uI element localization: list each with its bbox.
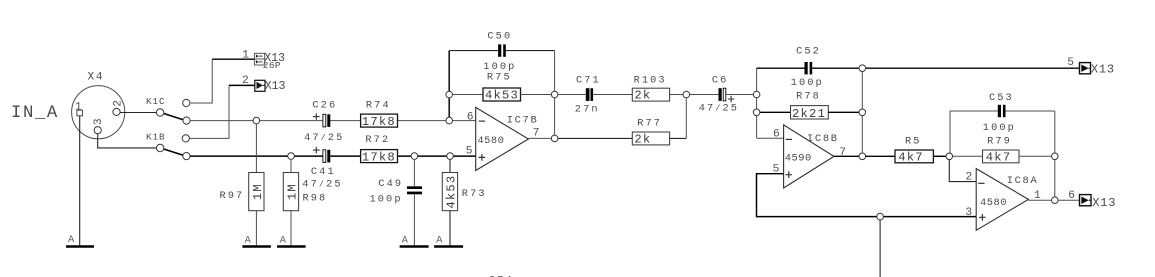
ground R97: [242, 245, 271, 248]
svg-text:R77: R77: [637, 118, 662, 130]
svg-text:K1C: K1C: [146, 96, 165, 107]
wire K1C top throw to X13 pin1: [190, 59, 212, 103]
svg-text:C71: C71: [576, 74, 601, 86]
resistor R79: [953, 136, 1052, 165]
svg-text:47/25: 47/25: [699, 103, 739, 115]
svg-text:K1B: K1B: [146, 132, 165, 143]
svg-text:X13: X13: [1092, 196, 1116, 210]
svg-text:R103: R103: [634, 74, 667, 86]
wire IC8B pin5 / bottom net: [757, 174, 977, 217]
capacitor C52: [757, 46, 860, 89]
svg-text:2: 2: [112, 100, 124, 107]
svg-text:C52: C52: [796, 46, 821, 58]
svg-text:47/25: 47/25: [302, 179, 342, 191]
wire C52 row to X13 pin5: [866, 67, 1079, 69]
wire junction to IC8A pin2: [949, 160, 976, 182]
resistor R72: [361, 134, 398, 164]
capacitor C53: [950, 92, 1055, 134]
svg-text:47/25: 47/25: [304, 132, 344, 144]
ground: [66, 245, 94, 248]
svg-text:R72: R72: [365, 134, 390, 146]
wire X4 pin3 to K1B common: [98, 134, 157, 148]
svg-text:R97: R97: [220, 190, 245, 202]
resistor R5: [895, 136, 946, 165]
svg-text:3: 3: [965, 207, 972, 219]
svg-text:6: 6: [1068, 190, 1075, 202]
svg-text:7: 7: [839, 147, 846, 159]
junction row2/R73: [447, 153, 454, 160]
junction row2/R98: [288, 153, 295, 160]
svg-text:100p: 100p: [370, 194, 403, 206]
capacitor C50: [449, 31, 554, 74]
svg-text:R74: R74: [366, 100, 391, 112]
junction R5/R79/pin2: [946, 153, 953, 160]
wire K1B top throw to X13 pin2: [189, 85, 229, 138]
wire X4 pin2 to K1C common: [120, 112, 156, 114]
svg-text:17k8: 17k8: [362, 150, 396, 164]
svg-text:1M: 1M: [251, 183, 265, 200]
resistor R98: [283, 159, 327, 245]
wire IC7B output: [528, 137, 551, 139]
resistor R73: [442, 159, 486, 245]
svg-text:A: A: [245, 234, 252, 246]
svg-text:2k: 2k: [634, 133, 651, 147]
svg-text:4580: 4580: [980, 197, 1007, 209]
op-amp IC8B: [773, 125, 846, 188]
svg-text:5: 5: [466, 145, 473, 157]
svg-text:7: 7: [533, 128, 540, 140]
feedback column right of IC8B (x862): [861, 68, 863, 156]
svg-text:100p: 100p: [791, 77, 824, 89]
svg-text:5: 5: [1067, 57, 1074, 69]
svg-text:A: A: [280, 235, 287, 247]
connector X13 pin 5: [1067, 57, 1115, 77]
connector X13 pin 1 / 26P: [242, 50, 285, 71]
svg-text:A: A: [402, 234, 409, 246]
svg-text:R98: R98: [303, 193, 328, 205]
svg-text:4k53: 4k53: [444, 175, 458, 209]
svg-text:X4: X4: [88, 71, 105, 83]
svg-text:1: 1: [242, 50, 249, 62]
svg-text:R78: R78: [796, 91, 821, 103]
svg-text:IN_A: IN_A: [11, 104, 59, 123]
svg-text:X13: X13: [1091, 63, 1115, 77]
svg-text:6: 6: [467, 112, 474, 124]
resistor R78: [760, 91, 859, 121]
svg-text:R5: R5: [905, 136, 922, 148]
node column x756: [756, 68, 758, 138]
svg-text:A: A: [68, 234, 75, 246]
resistor R97: [220, 124, 265, 245]
op-amp IC7B: [466, 107, 540, 170]
capacitor C6: [690, 75, 754, 115]
svg-text:A: A: [436, 234, 443, 246]
capacitor C41: [302, 147, 342, 191]
resistor R74: [361, 100, 398, 129]
svg-text:1: 1: [75, 102, 82, 114]
column C53 left: [949, 111, 951, 153]
svg-text:4k53: 4k53: [485, 89, 519, 103]
svg-text:100p: 100p: [983, 122, 1016, 134]
svg-text:C53: C53: [989, 92, 1014, 104]
resistor R75: [453, 71, 552, 102]
svg-text:C6: C6: [712, 75, 729, 87]
feedback column right of IC8A (x1054.8): [1054, 111, 1056, 200]
capacitor C26: [304, 99, 344, 143]
svg-text:1M: 1M: [285, 183, 299, 200]
connector X4 (XLR): [72, 71, 125, 139]
wire IC8B pin6: [757, 137, 784, 139]
svg-text:C26: C26: [312, 99, 337, 111]
svg-text:IC7B: IC7B: [507, 115, 539, 127]
svg-text:4580: 4580: [477, 135, 504, 147]
svg-text:C49: C49: [378, 178, 403, 190]
svg-text:4590: 4590: [785, 153, 812, 165]
svg-text:6: 6: [773, 129, 780, 141]
svg-text:3: 3: [93, 118, 105, 125]
svg-text:27n: 27n: [575, 104, 600, 116]
wire IC8B output: [834, 155, 859, 157]
junction bottom net: [877, 213, 884, 220]
svg-text:26P: 26P: [263, 60, 281, 71]
feedback column right (x554.6): [554, 51, 556, 139]
junction row2/C49: [411, 153, 418, 160]
wire net row2 (K1B to op-amp pin5): [190, 155, 323, 157]
svg-text:2: 2: [966, 171, 973, 183]
svg-text:IC8B: IC8B: [807, 133, 839, 145]
svg-text:17k8: 17k8: [362, 115, 396, 129]
wire to bottom edge: [879, 220, 881, 277]
svg-text:IC8A: IC8A: [1007, 175, 1039, 187]
wire net row1 (K1C to op-amp pin6): [190, 120, 323, 122]
resistor R77: [632, 98, 686, 147]
junction R103/C6/R77 node: [683, 91, 690, 98]
relay contact K1B: [146, 132, 190, 160]
resistor R103: [632, 74, 683, 102]
svg-text:4k7: 4k7: [986, 151, 1012, 165]
svg-text:X13: X13: [265, 80, 286, 93]
svg-text:C50: C50: [487, 31, 512, 43]
op-amp IC8A: [965, 169, 1041, 231]
ground R98: [277, 245, 306, 248]
svg-text:R73: R73: [462, 188, 487, 200]
svg-text:R75: R75: [487, 71, 512, 83]
svg-text:4k7: 4k7: [898, 151, 924, 165]
capacitor C71: [558, 74, 632, 115]
wire X4 pin1 to ground: [79, 116, 81, 245]
svg-text:2k: 2k: [634, 89, 651, 103]
junction row1/R97: [253, 117, 260, 124]
feedback column left (x449): [448, 51, 450, 121]
svg-text:C41: C41: [311, 166, 336, 178]
svg-text:2k21: 2k21: [792, 107, 826, 121]
wire R77 row: [558, 137, 632, 139]
svg-text:R79: R79: [987, 136, 1012, 148]
connector X13 pin 2: [242, 75, 286, 93]
ground C49: [400, 245, 429, 248]
capacitor C49: [370, 159, 423, 245]
connector X13 pin 6: [1068, 190, 1116, 210]
relay contact K1C: [146, 96, 190, 124]
svg-text:2: 2: [242, 75, 249, 87]
ground R73: [434, 245, 463, 248]
wire IC8A output: [1028, 199, 1051, 201]
